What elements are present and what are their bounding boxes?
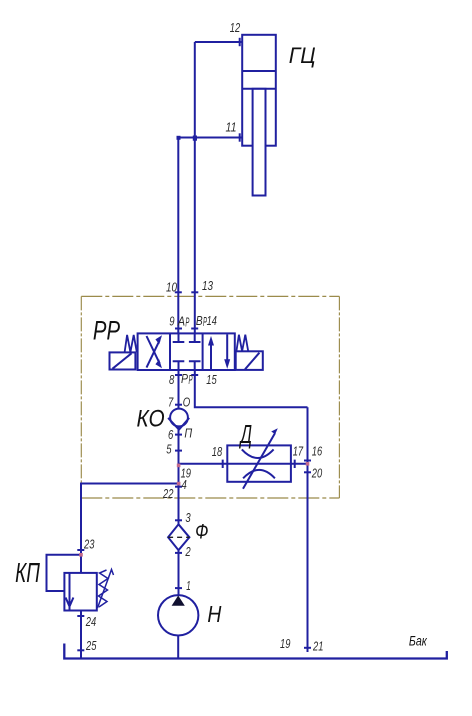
svg-text:11: 11: [226, 120, 237, 135]
spring left: [125, 335, 137, 352]
port tick 24: [77, 615, 84, 617]
cylinder GC body: [242, 35, 276, 146]
corner node 10/11: [177, 136, 181, 140]
port tick 23: [77, 549, 84, 551]
filter F element dashed: [168, 536, 189, 538]
crossing node at 13/11: [193, 136, 197, 141]
label RR: [93, 316, 120, 346]
label 23: [83, 537, 95, 552]
throttle D arcs: [242, 449, 275, 478]
port tick 15: [191, 374, 198, 376]
wire P below valve: [178, 370, 180, 409]
svg-text:Р: Р: [185, 315, 189, 330]
svg-text:B: B: [196, 313, 203, 328]
throttle D adjust arrow: [243, 428, 278, 488]
label 18: [212, 444, 223, 459]
svg-text:КП: КП: [15, 557, 40, 588]
wire right vertical to tank: [307, 407, 309, 652]
check valve KO circle: [170, 409, 188, 427]
pump N circle: [158, 595, 198, 635]
svg-text:Н: Н: [207, 601, 221, 627]
svg-text:12: 12: [230, 20, 241, 35]
svg-text:A: A: [177, 314, 185, 329]
label 6: [168, 427, 174, 442]
label port O: [183, 395, 191, 410]
label N: [207, 601, 221, 627]
port tick 20: [304, 471, 311, 473]
label 21: [312, 638, 323, 653]
svg-text:Бак: Бак: [409, 633, 427, 648]
label 12: [230, 20, 241, 35]
label 9: [169, 314, 174, 329]
label GC: [289, 43, 316, 68]
label 22: [162, 486, 174, 501]
label port B: [196, 313, 207, 329]
wire port11 horizontal: [178, 137, 242, 139]
label 19 tank: [280, 636, 290, 651]
wire port12 horizontal: [195, 41, 242, 43]
wire T return: [195, 370, 308, 407]
port tick 11: [239, 133, 241, 141]
valve RR left position cross arrow down: [147, 336, 163, 368]
label KP: [15, 557, 40, 588]
svg-text:20: 20: [311, 465, 323, 480]
port tick 8: [175, 374, 182, 376]
cylinder piston: [242, 71, 276, 89]
valve RR right position arrow down: [224, 334, 230, 369]
junction node 23: [79, 553, 83, 557]
svg-text:P: P: [181, 371, 188, 386]
svg-text:10: 10: [166, 280, 178, 295]
label port P: [181, 371, 193, 387]
svg-text:18: 18: [212, 444, 223, 459]
port tick 6: [175, 434, 182, 436]
valve RR center blocked port B: [189, 333, 201, 342]
svg-text:1: 1: [186, 578, 191, 593]
spring right: [236, 335, 248, 352]
svg-text:8: 8: [169, 372, 175, 387]
tank line: [64, 644, 447, 659]
svg-text:КО: КО: [137, 405, 165, 432]
label 15: [206, 372, 217, 387]
label 4: [182, 477, 187, 492]
junction node 19: [177, 464, 181, 468]
port tick 1: [175, 587, 182, 589]
wire throttle left: [179, 463, 228, 465]
svg-text:9: 9: [169, 314, 174, 329]
svg-text:Ф: Ф: [195, 519, 208, 543]
svg-text:Р: Р: [189, 372, 193, 387]
label 20: [311, 465, 323, 480]
label 19: [181, 465, 191, 480]
svg-text:Д: Д: [239, 419, 252, 449]
svg-text:5: 5: [166, 441, 172, 456]
svg-text:РР: РР: [93, 316, 120, 346]
solenoid right Y2: [236, 351, 263, 370]
wire pump to tank: [177, 635, 179, 658]
valve RR center blocked port P: [173, 361, 185, 370]
port tick 16: [304, 460, 311, 462]
valve RR body: [138, 333, 235, 370]
port tick 25: [77, 649, 84, 651]
label 14: [207, 313, 217, 328]
label F: [195, 519, 208, 543]
label port A: [177, 314, 190, 330]
solenoid left Y1: [110, 352, 136, 369]
label 7: [168, 395, 174, 410]
svg-text:3: 3: [185, 510, 191, 525]
label D: [239, 419, 252, 449]
svg-text:25: 25: [85, 638, 97, 653]
port tick 21: [304, 647, 311, 649]
port tick 17: [294, 460, 296, 468]
wire KP to tank: [80, 611, 82, 659]
label 11: [226, 120, 237, 135]
svg-text:7: 7: [168, 395, 174, 410]
svg-text:13: 13: [202, 278, 214, 293]
port tick 9: [175, 328, 182, 330]
junction node 16/20: [306, 462, 310, 466]
svg-text:П: П: [184, 425, 192, 440]
check valve KO seat: [168, 418, 189, 430]
port tick 4: [175, 486, 182, 488]
svg-text:14: 14: [207, 313, 217, 328]
label 17: [293, 444, 304, 459]
filter F diamond: [168, 524, 189, 550]
wire throttle right: [291, 463, 308, 465]
label Bak: [409, 633, 427, 648]
svg-text:2: 2: [185, 544, 192, 559]
wire KP pilot loop: [47, 555, 82, 591]
wire filter to pump: [178, 550, 180, 595]
label 16: [312, 444, 323, 459]
label 24: [85, 614, 96, 629]
cylinder rod: [253, 89, 266, 196]
svg-text:21: 21: [312, 638, 323, 653]
label 13: [202, 278, 214, 293]
valve RR center blocked port T: [189, 361, 201, 370]
port tick 7: [175, 404, 182, 406]
label 1: [186, 578, 191, 593]
svg-text:17: 17: [293, 444, 304, 459]
label port Pi: [184, 425, 192, 440]
port tick 3: [175, 519, 182, 521]
label KO: [137, 405, 165, 432]
label 3: [185, 510, 191, 525]
port tick 14: [191, 328, 198, 330]
svg-text:ГЦ: ГЦ: [289, 43, 316, 68]
wire 13 vertical: [194, 42, 196, 333]
svg-text:O: O: [183, 395, 191, 410]
label 25: [85, 638, 97, 653]
svg-text:22: 22: [162, 486, 174, 501]
junction node 4: [177, 482, 181, 486]
label 8: [169, 372, 175, 387]
port tick 12: [239, 38, 241, 46]
wire KO to junction 4: [178, 426, 180, 524]
throttle D box: [227, 445, 291, 481]
pump N arrow: [172, 596, 185, 606]
relief valve KP arrow: [66, 573, 74, 610]
svg-text:15: 15: [206, 372, 217, 387]
port tick 13: [191, 291, 198, 293]
svg-text:4: 4: [182, 477, 187, 492]
port tick 18: [222, 460, 224, 468]
relief valve KP spring: [98, 570, 114, 609]
valve RR right position arrow up: [208, 336, 214, 370]
svg-text:23: 23: [83, 537, 95, 552]
valve RR center blocked port A: [173, 333, 185, 342]
subsystem boundary box: [81, 296, 339, 498]
port tick 2: [175, 552, 182, 554]
valve RR separators: [170, 333, 203, 370]
label 10: [166, 280, 178, 295]
wire junction4 to KP: [81, 484, 179, 573]
valve RR left position cross arrow up: [147, 335, 163, 367]
port tick 10: [175, 291, 182, 293]
svg-text:16: 16: [312, 444, 323, 459]
relief valve KP box: [64, 573, 96, 611]
svg-text:6: 6: [168, 427, 174, 442]
label 2: [185, 544, 192, 559]
throttle D flow line: [227, 463, 291, 465]
wire 10 vertical: [177, 138, 179, 334]
label 5: [166, 441, 172, 456]
svg-text:24: 24: [85, 614, 96, 629]
svg-text:19: 19: [280, 636, 290, 651]
port tick 5: [175, 450, 182, 452]
